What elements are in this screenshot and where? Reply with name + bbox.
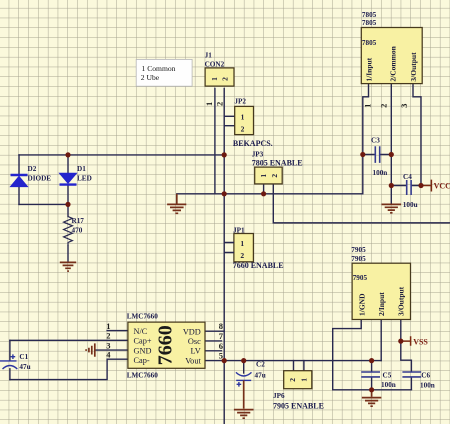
- wire: D1 stubs: [67, 155, 69, 205]
- ground: under C2: [234, 380, 254, 418]
- J1 body: [205, 68, 234, 86]
- junction J1 pin2 bus and diode net: [222, 152, 227, 157]
- svg-text:8: 8: [219, 321, 223, 331]
- junction C5 bottom ground node: [369, 387, 374, 392]
- junction at D1 bottom / R17: [65, 202, 70, 207]
- svg-text:J1: J1: [205, 51, 213, 59]
- capacitor C3 plates: [375, 146, 379, 163]
- junction at D1 top: [65, 152, 70, 157]
- wire: J1 pin1 drop to ground net: [214, 88, 216, 193]
- capacitor C4 plates: [407, 180, 411, 195]
- svg-text:3/Output: 3/Output: [409, 52, 418, 82]
- svg-text:7805 ENABLE: 7805 ENABLE: [252, 159, 303, 168]
- wire: 7660 pin8 stub to bus: [205, 330, 224, 332]
- svg-text:JP6: JP6: [273, 392, 285, 400]
- resistor R17 zigzag: [64, 217, 73, 246]
- svg-text:100n: 100n: [420, 381, 435, 389]
- regulator 7805: [361, 11, 422, 108]
- svg-text:C1: C1: [19, 353, 28, 361]
- svg-text:R17: R17: [72, 217, 85, 225]
- capacitor C2 polarized plates: [236, 372, 252, 386]
- power port VCC: [421, 180, 450, 192]
- capacitor C1 polarized plates: [0, 354, 17, 369]
- svg-text:CON2: CON2: [205, 60, 225, 68]
- svg-text:GND: GND: [134, 346, 152, 355]
- wire: 7660 pin3 stub to side ground: [95, 349, 128, 351]
- capacitor C6 plates: [402, 372, 421, 377]
- svg-text:100n: 100n: [373, 169, 388, 177]
- jumper JP6 7905 ENABLE: [273, 371, 324, 411]
- junction JP3 pin1 on ground net: [261, 191, 266, 196]
- junction C2 on Vout net: [241, 358, 246, 363]
- wire: 7660 pin4 loop to C1 bottom: [10, 359, 128, 379]
- svg-text:Cap-: Cap-: [134, 356, 150, 365]
- svg-text:1: 1: [210, 77, 219, 81]
- svg-text:LMC7660: LMC7660: [127, 372, 159, 380]
- svg-text:2: 2: [240, 251, 244, 260]
- svg-text:3: 3: [399, 104, 409, 108]
- jumper JP1 7660 ENABLE: [224, 226, 283, 270]
- svg-text:1/Input: 1/Input: [365, 57, 374, 81]
- svg-text:2: 2: [241, 125, 245, 134]
- wire: JP1 pin stubs: [224, 243, 234, 253]
- svg-text:LED: LED: [77, 174, 92, 182]
- wire: 7905 pin1 ground loop: [333, 320, 412, 390]
- wire: 7660 pin6 stub: [205, 350, 222, 352]
- wire: JP3 pin2 drop and run east off sheet: [273, 184, 450, 223]
- junction C3 left: [360, 152, 365, 157]
- ground: under C5 junction: [362, 390, 382, 406]
- wire: JP3 pin1 drop: [263, 184, 265, 194]
- JP1 body: [234, 234, 254, 262]
- junction C3 right on 7805 pin2: [389, 152, 394, 157]
- capacitor C5 plates: [361, 372, 380, 377]
- 7905 body: [352, 263, 410, 319]
- svg-text:1: 1: [300, 378, 309, 382]
- jumper JP3 7805 ENABLE: [252, 151, 303, 184]
- svg-text:6: 6: [219, 341, 223, 351]
- tooltip note box: [136, 59, 192, 86]
- svg-text:LV: LV: [190, 347, 200, 356]
- JP2 body: [235, 106, 254, 134]
- junction C5 on Vout net: [369, 358, 374, 363]
- svg-text:Cap+: Cap+: [134, 337, 152, 346]
- svg-text:47u: 47u: [255, 371, 266, 379]
- svg-text:2/Common: 2/Common: [389, 45, 398, 81]
- svg-text:2: 2: [106, 331, 110, 341]
- svg-text:2: 2: [288, 378, 297, 382]
- svg-text:C6: C6: [421, 372, 430, 380]
- wire: J1 pin2 vertical bus down entire sheet: [223, 88, 225, 424]
- svg-text:7660: 7660: [155, 325, 177, 365]
- junction C4 right at VCC: [418, 183, 423, 188]
- JP3 body: [255, 167, 283, 184]
- svg-text:2/Input: 2/Input: [377, 292, 386, 316]
- svg-text:Osc: Osc: [188, 337, 201, 346]
- wire: D2 stubs: [18, 155, 20, 205]
- wire: C5 stems: [371, 361, 373, 390]
- JP6 body: [284, 371, 312, 389]
- junction C4 left on 7805 pin2: [389, 183, 394, 188]
- wire: R17 leads: [67, 204, 69, 261]
- svg-text:1: 1: [240, 239, 244, 248]
- svg-text:VSS: VSS: [413, 337, 428, 346]
- svg-text:470: 470: [72, 227, 83, 235]
- svg-text:C5: C5: [383, 372, 392, 380]
- svg-text:2 Ube: 2 Ube: [141, 73, 160, 82]
- svg-text:Vout: Vout: [185, 357, 201, 366]
- svg-text:100n: 100n: [381, 381, 396, 389]
- svg-text:2: 2: [270, 174, 279, 178]
- svg-text:JP3: JP3: [252, 151, 264, 159]
- wire: Vout net y=360.6 to 7905 input: [205, 360, 381, 362]
- svg-text:7905: 7905: [351, 255, 366, 263]
- svg-text:BEKAPCS.: BEKAPCS.: [233, 139, 273, 148]
- svg-text:DIODE: DIODE: [28, 174, 52, 182]
- IC LMC7660: [106, 312, 224, 379]
- wire: JP2 pin2 stub: [224, 125, 235, 127]
- svg-text:7660 ENABLE: 7660 ENABLE: [233, 261, 284, 270]
- svg-text:VCC: VCC: [434, 182, 450, 191]
- LED D1: [60, 173, 77, 184]
- wire: C3 row segments: [363, 154, 392, 156]
- wire: C4 row segment: [391, 185, 421, 187]
- svg-text:7: 7: [219, 331, 224, 341]
- power port VSS: [401, 336, 429, 346]
- wire: JP6 stubs: [294, 361, 304, 371]
- LMC7660 body: [128, 322, 205, 368]
- wire: C2 stem: [243, 361, 245, 373]
- junction 7905 pin3 at VSS: [398, 339, 403, 344]
- svg-text:2: 2: [221, 77, 230, 81]
- wire: 7660 pin1 stub: [107, 330, 128, 332]
- svg-text:2: 2: [378, 104, 388, 108]
- svg-text:7905: 7905: [351, 246, 366, 254]
- junction bus and ground net: [222, 191, 227, 196]
- svg-text:7905 ENABLE: 7905 ENABLE: [273, 401, 324, 410]
- connector J1 CON2: [204, 51, 234, 106]
- wire: diode top net y=155: [19, 154, 224, 156]
- wire: ground net y=194 from gnd to 7805 input: [177, 193, 363, 195]
- ground: under 7805 pin2: [382, 204, 402, 212]
- ground: under J1 pin1 net: [167, 194, 186, 214]
- wire: 7905 pin2 drop: [380, 320, 382, 361]
- svg-text:5: 5: [219, 350, 223, 360]
- wire: 7660 pin7 stub: [205, 340, 222, 342]
- svg-text:N/C: N/C: [134, 327, 148, 336]
- svg-text:C4: C4: [403, 173, 412, 181]
- svg-text:3/Output: 3/Output: [396, 286, 405, 316]
- wire: C1 leads: [9, 340, 11, 379]
- wire: 7805 pin3 lead with jog to VCC row: [413, 84, 421, 186]
- ground: sideways at 7660 pin3: [86, 343, 95, 356]
- wire: 7905 pin3 drop and jog to C6: [401, 320, 412, 390]
- svg-text:LMC7660: LMC7660: [127, 312, 159, 320]
- svg-text:D2: D2: [28, 165, 37, 173]
- regulator 7905: [351, 246, 410, 319]
- wire: JP2 pin1 stub: [224, 115, 235, 117]
- svg-text:1: 1: [362, 104, 372, 108]
- 7805 body: [361, 28, 422, 84]
- jumper JP2: [234, 98, 253, 135]
- junction bus on Vout net: [222, 358, 227, 363]
- svg-text:7805: 7805: [362, 11, 377, 19]
- svg-text:1: 1: [241, 112, 245, 121]
- svg-text:C2: C2: [256, 360, 265, 368]
- svg-text:JP2: JP2: [234, 98, 246, 106]
- svg-text:7905: 7905: [353, 274, 368, 282]
- wire: 7805 pin2 lead to ground: [390, 84, 392, 204]
- ground: under R17: [60, 262, 76, 271]
- svg-text:47u: 47u: [19, 363, 30, 371]
- svg-text:1/GND: 1/GND: [357, 293, 366, 316]
- svg-text:7805: 7805: [362, 39, 377, 47]
- svg-text:1: 1: [204, 102, 214, 106]
- wire: 7805 pin1 lead with jog: [363, 84, 369, 194]
- svg-text:100u: 100u: [403, 201, 418, 209]
- svg-text:7805: 7805: [362, 19, 377, 27]
- svg-text:1: 1: [259, 174, 268, 178]
- svg-text:1 Common: 1 Common: [142, 64, 176, 73]
- svg-text:D1: D1: [77, 165, 86, 173]
- diode D2: [11, 175, 28, 187]
- svg-text:2: 2: [214, 102, 224, 106]
- svg-text:1: 1: [106, 321, 110, 331]
- svg-text:C3: C3: [371, 137, 380, 145]
- wire: diode bottom net: [19, 203, 68, 205]
- wire: 7660 pin2 to C1 top: [10, 339, 128, 341]
- svg-text:VDD: VDD: [183, 327, 201, 336]
